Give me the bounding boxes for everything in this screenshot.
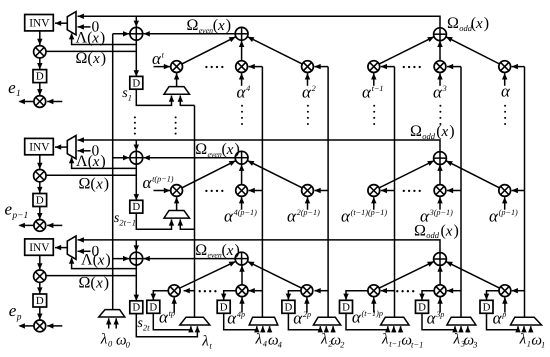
wire column 3 row1 branch <box>314 64 328 69</box>
wire column 5 row2 branch <box>447 188 461 193</box>
label 0 row1 <box>92 19 100 36</box>
svg-text:INV: INV <box>29 18 50 30</box>
cell mux row1 <box>164 87 190 95</box>
wire row3 omega input stub column 4 <box>398 326 403 333</box>
svg-text:α: α <box>227 309 237 328</box>
label e_p-1 <box>5 200 29 222</box>
leaf multiplier row2 column 1 <box>171 185 183 197</box>
label alpha^3 <box>433 83 447 102</box>
label alpha^(p-1) <box>489 207 518 226</box>
label lambda_0 <box>100 332 113 349</box>
wire row2 odd leaf to root diagonal <box>379 161 434 188</box>
svg-text:D: D <box>36 71 44 83</box>
wire row2 register D to output multiplier <box>37 207 42 220</box>
wire row3 alpha constant input column 1 <box>172 297 177 312</box>
label omega_3 <box>464 333 478 350</box>
svg-text:α: α <box>302 83 312 102</box>
wire row1 Omega(x) line <box>44 50 136 52</box>
wire row3 even leaf to root diagonal <box>180 261 236 288</box>
wire row1 error output e <box>19 99 35 104</box>
wire row1 feedback branch into adder <box>134 16 139 27</box>
wire column 6 row2 branch <box>512 188 525 193</box>
svg-text:D: D <box>284 301 292 313</box>
svg-text:λ: λ <box>100 332 108 348</box>
label omega_t-1 <box>401 333 423 350</box>
svg-text:tp: tp <box>169 309 175 318</box>
wire row1 alpha constant input column 4 <box>371 73 376 86</box>
ellipsis dots row1 odd tree <box>403 66 421 68</box>
svg-text:D: D <box>36 295 44 307</box>
register D row3 left <box>33 294 47 307</box>
leaf multiplier row3 column 3 <box>301 285 313 297</box>
label e_p <box>9 301 22 323</box>
wire row3 alpha constant input column 6 <box>502 297 507 312</box>
svg-text:p−1: p−1 <box>11 211 28 221</box>
wire row3 lambda input stub column 5 <box>458 326 463 333</box>
svg-text:Λ(: Λ( <box>81 252 98 269</box>
wire row1 adder to syndrome register <box>134 40 139 77</box>
svg-text:D: D <box>132 77 140 89</box>
leaf multiplier row3 column 4 <box>368 285 380 297</box>
leaf multiplier row1 column 3 <box>302 61 314 73</box>
wire row3 register D loop to mux column 4 <box>346 313 391 332</box>
label Omega(x) row2 <box>79 175 110 192</box>
label omega_4 <box>268 333 283 350</box>
wire row3 lambda input stub column 6 <box>521 326 526 333</box>
wire row1 register D to output multiplier <box>37 83 42 96</box>
svg-text:): ) <box>100 30 105 47</box>
svg-text:α: α <box>293 309 303 328</box>
wire row2 column feed into cell mux <box>178 219 195 229</box>
label alpha^tp <box>159 308 175 327</box>
svg-text:x: x <box>441 124 449 140</box>
svg-text:4p: 4p <box>237 310 245 319</box>
label alpha <box>501 82 511 101</box>
svg-text:): ) <box>226 17 231 34</box>
multiplier row2 Forney <box>34 170 46 182</box>
svg-text:Λ(: Λ( <box>76 153 93 170</box>
wire row3 even center leaf to root <box>239 265 244 284</box>
wire column 6 row1 branch <box>512 64 525 69</box>
svg-text:x: x <box>445 223 453 239</box>
wire row1 even center leaf to root <box>239 41 244 61</box>
wire column 4 row1 branch <box>381 64 395 69</box>
svg-text:t−1: t−1 <box>372 84 384 93</box>
label Omega_even row2 <box>195 141 240 159</box>
wire row3 constant 0 input <box>78 249 91 254</box>
wire row3 omega input stub column 5 <box>465 326 470 333</box>
ellipsis dots row2 odd tree <box>403 190 421 192</box>
svg-text:): ) <box>235 242 240 259</box>
svg-text:α: α <box>143 173 153 192</box>
svg-text:): ) <box>235 141 240 158</box>
wire column 2 row2 branch <box>248 188 262 193</box>
wire row3 evaluation bus branch into adder <box>113 256 130 261</box>
svg-text:D: D <box>418 301 426 313</box>
svg-text:x: x <box>91 31 99 47</box>
svg-text:2p: 2p <box>303 310 311 319</box>
svg-text:odd: odd <box>422 131 436 141</box>
cell mux row3 column 6 <box>511 317 542 325</box>
label Lambda(x) row1 <box>76 30 106 47</box>
register D row2 left <box>33 194 47 207</box>
wire row3 multiplier to register D column 1 <box>151 291 169 300</box>
svg-text:λ: λ <box>320 332 328 348</box>
wire row1 even-tree root output <box>143 31 235 36</box>
svg-text:even: even <box>199 26 213 35</box>
svg-text:x: x <box>475 16 483 32</box>
wire row3 output multiplier right input <box>47 323 62 328</box>
wire row1 odd leaf to root diagonal <box>379 37 434 64</box>
wire row1 column feed into cell mux <box>178 95 195 105</box>
label 0 row2 <box>92 143 100 160</box>
wire lambda_0 input stub <box>106 318 111 328</box>
svg-text:INV: INV <box>29 142 50 154</box>
wire row2 feedback line from odd-tree root to input mux <box>78 137 441 151</box>
label Omega_odd row3 <box>414 222 459 240</box>
wire row1 output multiplier right input <box>47 99 62 104</box>
svg-text:α: α <box>224 207 234 226</box>
svg-text:λ: λ <box>519 332 527 348</box>
svg-text:): ) <box>100 153 105 170</box>
label lambda_3 <box>453 332 465 349</box>
cell register D row3 column 1 <box>147 300 160 313</box>
svg-text:D: D <box>36 195 44 207</box>
wire column 1 row3 branch <box>183 288 194 293</box>
svg-text:Λ(: Λ( <box>76 30 93 47</box>
svg-text:4(p−1): 4(p−1) <box>234 208 258 217</box>
svg-text:x: x <box>95 176 103 192</box>
label alpha^4 <box>237 83 251 102</box>
wire row1 cell mux to multiplier <box>174 73 179 87</box>
multiplier row1 Forney <box>34 46 46 58</box>
syndrome register D row3 <box>130 301 143 314</box>
svg-text:α: α <box>427 309 437 328</box>
wire row2 even leaf to root diagonal <box>182 161 236 188</box>
label alpha^t-1 <box>362 83 384 102</box>
ellipsis dots row1 even tree <box>205 66 223 68</box>
wire omega_0 input stub <box>114 318 119 328</box>
wire row3 odd leaf to root diagonal <box>379 261 434 288</box>
svg-text:p: p <box>16 313 22 323</box>
wire row3 lambda input stub column 4 <box>391 326 396 333</box>
wire row2 even-tree root output <box>143 155 235 160</box>
svg-text:): ) <box>484 15 489 32</box>
svg-text:3p: 3p <box>435 310 444 319</box>
leaf multiplier row2 column 3 <box>302 185 314 197</box>
wire row3 register D loop to mux column 3 <box>288 313 323 332</box>
svg-text:4: 4 <box>246 84 250 93</box>
svg-text:e: e <box>9 301 17 320</box>
wire column 2 row3 branch <box>248 288 262 293</box>
wire row3 even leaf to root diagonal <box>248 262 302 289</box>
wire row3 Omega(x) line <box>44 275 136 277</box>
svg-text:α: α <box>433 83 443 102</box>
svg-text:2: 2 <box>340 340 345 350</box>
svg-text:): ) <box>101 50 106 67</box>
label alpha^(t-1)(p-1) <box>341 207 387 226</box>
cell mux row3 column 4 <box>381 317 409 325</box>
wire row2 alpha constant input column 6 <box>502 197 507 210</box>
label lambda_t-1 <box>381 332 402 349</box>
even-tree root adder row2 <box>235 151 248 164</box>
svg-text:1: 1 <box>128 92 132 102</box>
wire row3 syndrome register to lambda_t mux <box>136 314 200 337</box>
label alpha^2(p-1) <box>287 207 320 226</box>
svg-text:Ω(: Ω( <box>79 175 96 192</box>
wire row1 odd leaf to root diagonal <box>446 37 499 64</box>
wire column 5 vertical feed <box>460 67 462 318</box>
wire row2 alpha constant input column 5 <box>437 197 442 210</box>
wire row1 even leaf to root diagonal <box>182 37 236 64</box>
continuation dots column 4 <box>373 105 375 125</box>
wire row3 adder to syndrome register <box>134 265 139 301</box>
svg-text:λ: λ <box>453 332 461 348</box>
svg-text:1: 1 <box>16 89 21 99</box>
svg-text:Ω(: Ω( <box>79 274 96 291</box>
wire row3 alpha constant input column 5 <box>437 297 442 312</box>
svg-text:2t−1: 2t−1 <box>119 218 136 228</box>
leaf multiplier row3 column 1 <box>168 285 180 297</box>
wire row3 multiplier to register D column 4 <box>343 291 368 300</box>
ellipsis dots row2 even tree <box>205 190 223 192</box>
wire row3 register D loop to mux column 1 <box>153 313 193 332</box>
leaf multiplier row2 column 5 <box>434 185 446 197</box>
wire row3 even-tree root output <box>143 256 235 261</box>
leaf multiplier row1 column 1 <box>171 61 183 73</box>
svg-text:): ) <box>105 252 110 269</box>
label s_2t <box>137 316 150 333</box>
svg-text:e: e <box>8 78 16 97</box>
label alpha^2p <box>293 309 311 328</box>
odd-tree root adder row2 <box>434 152 447 165</box>
cell mux row3 column 3 <box>313 317 340 325</box>
leaf multiplier row2 column 4 <box>368 185 380 197</box>
svg-text:1: 1 <box>541 340 545 350</box>
lambda0/omega0 input mux <box>99 310 125 317</box>
syndrome register D row2 <box>130 200 143 213</box>
svg-text:λ: λ <box>381 332 389 348</box>
cell mux row3 column 1 <box>180 317 210 325</box>
wire column 1 vertical feed <box>194 105 196 317</box>
input mux row1 <box>67 12 76 35</box>
cell register D row3 column 5 <box>416 300 429 313</box>
wire row1 syndrome register to cell mux <box>136 89 174 105</box>
leaf multiplier row1 column 6 <box>499 61 511 73</box>
label omega_2 <box>331 333 346 350</box>
label alpha^(t-1)p <box>352 308 383 327</box>
wire row3 omega input stub column 2 <box>267 326 272 333</box>
label Omega_even row3 <box>195 242 240 260</box>
svg-text:λ: λ <box>201 333 209 349</box>
label alpha^3p <box>427 309 445 328</box>
svg-text:): ) <box>104 274 109 291</box>
svg-text:2: 2 <box>312 84 316 93</box>
svg-text:α: α <box>352 308 362 327</box>
svg-text:Ω: Ω <box>195 141 207 158</box>
svg-text:4: 4 <box>278 340 283 350</box>
wire row2 alpha constant input column 3 <box>305 197 310 210</box>
cell register D row3 column 4 <box>340 300 353 313</box>
label Omega(x) row3 <box>79 274 110 291</box>
svg-text:α: α <box>237 83 247 102</box>
label alpha^t <box>152 49 165 68</box>
wire row2 cell mux to multiplier <box>174 197 179 211</box>
svg-text:α: α <box>501 82 511 101</box>
wire row3 omega input stub column 3 <box>330 326 335 333</box>
cell mux row2 <box>164 211 190 219</box>
output multiplier row2 <box>34 220 46 232</box>
wire column 4 row2 branch <box>381 188 395 193</box>
svg-text:x: x <box>97 253 105 269</box>
svg-text:D: D <box>132 201 140 213</box>
syndrome register D row1 <box>130 76 143 89</box>
register D row1 left <box>33 70 47 83</box>
wire row3 multiplier to register D column 5 <box>419 291 434 300</box>
svg-text:x: x <box>92 154 100 170</box>
svg-text:x: x <box>226 142 234 158</box>
wire lambda0/omega0 bus vertical <box>112 34 114 310</box>
wire row2 constant 0 input <box>78 148 91 153</box>
continuation dots column 1 <box>175 116 177 134</box>
label s_2t-1 <box>114 211 136 228</box>
label s_1 <box>122 86 132 102</box>
svg-text:D: D <box>149 301 157 313</box>
wire column 2 row1 branch <box>248 64 262 69</box>
even-tree root adder row1 <box>235 27 248 40</box>
cell register D row3 column 2 <box>217 300 230 313</box>
wire row1 evaluation bus branch into adder <box>113 31 130 36</box>
wire column 3 vertical feed <box>327 67 329 318</box>
wire row1 INV to multiplier <box>37 31 42 46</box>
wire column 5 row1 branch <box>447 64 461 69</box>
cell register D row3 column 6 <box>480 300 493 313</box>
wire row3 multiplier to register D column 6 <box>484 291 499 300</box>
wire row2 syndrome register to cell mux <box>136 213 174 229</box>
label Omega(x) row1 <box>76 50 107 67</box>
label alpha^3(p-1) <box>420 207 453 226</box>
label Lambda(x) row3 <box>81 252 111 269</box>
leaf multiplier row3 column 2 <box>236 285 248 297</box>
label alpha^p <box>493 309 507 328</box>
wire row3 alpha constant input column 2 <box>239 297 244 312</box>
wire row2 even leaf to root diagonal <box>248 161 303 188</box>
label Omega_odd row1 <box>447 15 489 33</box>
odd-tree root adder row1 <box>434 28 447 41</box>
cell register D row3 column 3 <box>282 300 295 313</box>
svg-text:2(p−1): 2(p−1) <box>297 208 321 217</box>
label alpha^4p <box>227 309 245 328</box>
svg-text:p: p <box>501 310 506 319</box>
wire row2 mux to INV <box>55 144 68 149</box>
svg-text:3: 3 <box>472 340 477 350</box>
wire row3 odd leaf to root diagonal <box>446 262 500 289</box>
svg-text:(t−1)(p−1): (t−1)(p−1) <box>351 208 388 217</box>
svg-text:x: x <box>217 18 225 34</box>
wire row3 Lambda(x) line <box>69 257 136 268</box>
leaf multiplier row3 column 6 <box>499 285 511 297</box>
wire row3 lambda input stub column 2 <box>260 326 265 333</box>
leaf multiplier row3 column 5 <box>434 285 446 297</box>
wire row3 register D loop to mux column 2 <box>224 313 260 332</box>
wire row3 mux to INV <box>55 245 68 250</box>
wire row1 multiplier to register D <box>37 58 42 70</box>
cell mux row3 column 2 <box>249 317 278 325</box>
wire row2 adder to syndrome register <box>134 164 139 201</box>
adder row2 <box>130 151 143 164</box>
wire row3 feedback line from odd-tree root to input mux <box>78 237 441 252</box>
adder row3 <box>130 252 143 265</box>
svg-text:α: α <box>362 83 372 102</box>
label Omega_odd row2 <box>410 123 455 141</box>
svg-text:even: even <box>208 251 222 260</box>
label lambda_4 <box>255 332 268 349</box>
wire row3 odd center leaf to root <box>437 265 442 284</box>
svg-text:α: α <box>341 207 351 226</box>
multiplier row3 Forney <box>34 270 46 282</box>
wire row1 alpha constant input column 5 <box>437 73 442 86</box>
wire row1 alpha^t constant input <box>154 64 171 69</box>
wire row2 alpha constant input column 2 <box>239 197 244 210</box>
svg-text:α: α <box>287 207 297 226</box>
wire row3 multiplier to register D column 2 <box>221 291 236 300</box>
wire row2 alpha^t(p-1) constant input <box>154 188 171 193</box>
wire row3 lambda input stub column 3 <box>324 326 329 333</box>
svg-text:Ω(: Ω( <box>76 50 93 67</box>
leaf multiplier row1 column 4 <box>368 61 380 73</box>
label lambda_2 <box>320 332 333 349</box>
svg-text:e: e <box>5 200 13 219</box>
wire column 6 vertical feed <box>524 67 526 318</box>
wire row3 register D to output multiplier <box>37 307 42 320</box>
svg-text:0: 0 <box>126 340 131 350</box>
label alpha^4(p-1) <box>224 207 257 226</box>
wire row3 INV to multiplier <box>37 255 42 270</box>
label e_1 <box>8 78 21 99</box>
continuation dots column 6 <box>504 105 506 125</box>
svg-text:): ) <box>449 123 454 140</box>
svg-text:even: even <box>208 150 222 159</box>
wire row1 mux to INV <box>55 21 68 26</box>
svg-text:Ω: Ω <box>195 242 207 259</box>
adder row1 <box>130 27 143 40</box>
wire row1 constant 0 input <box>78 24 91 29</box>
wire row1 odd center leaf to root <box>437 41 442 61</box>
svg-text:t−1: t−1 <box>411 340 423 350</box>
svg-text:α: α <box>493 309 503 328</box>
svg-text:D: D <box>483 301 491 313</box>
wire row2 feedback branch into adder <box>134 140 139 151</box>
label Omega_even row1 <box>187 17 232 35</box>
label alpha^t(p-1) <box>143 173 174 192</box>
wire row1 alpha constant input column 3 <box>305 73 310 86</box>
wire column 2 vertical feed <box>261 67 263 318</box>
label omega_0 <box>116 333 131 350</box>
wire row2 error output e <box>19 223 35 228</box>
continuation dots column 2 <box>241 105 243 125</box>
svg-text:3: 3 <box>442 84 447 93</box>
input mux row3 <box>67 236 76 259</box>
wire row2 odd center leaf to root <box>437 165 442 185</box>
wire row3 alpha constant input column 3 <box>304 297 309 312</box>
inverter INV row2 <box>25 138 54 154</box>
label omega_1 <box>531 333 545 350</box>
label lambda_t <box>201 333 212 350</box>
svg-text:(p−1): (p−1) <box>499 208 518 217</box>
svg-text:x: x <box>95 275 103 291</box>
svg-text:): ) <box>454 222 459 239</box>
svg-text:x: x <box>92 51 100 67</box>
